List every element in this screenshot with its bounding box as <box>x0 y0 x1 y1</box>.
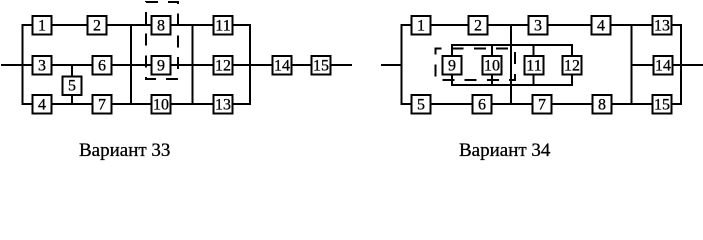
wire stub 11 bottom <box>533 74 535 86</box>
svg-text:1: 1 <box>417 18 425 35</box>
svg-text:14: 14 <box>655 58 671 75</box>
resistor box 10 <box>483 56 502 75</box>
resistor box 3 <box>529 16 548 35</box>
wire stub 10 top <box>491 44 493 56</box>
svg-text:13: 13 <box>654 18 670 35</box>
wire 15 to bus6 <box>672 103 681 105</box>
wire bus left vertical <box>401 24 403 105</box>
wire stub to 5 top <box>71 65 73 76</box>
resistor box 7 <box>533 95 552 114</box>
wire bus to R5 <box>402 103 412 105</box>
wire 6 to 7 <box>492 103 532 105</box>
svg-text:10: 10 <box>484 58 500 75</box>
wire 2 to 3 <box>488 24 528 26</box>
wire stub 10 bottom <box>491 74 493 86</box>
wire 3 to 4 <box>548 24 591 26</box>
svg-text:11: 11 <box>215 18 230 35</box>
svg-text:Вариант 34: Вариант 34 <box>459 140 551 161</box>
resistor box 13 <box>653 16 672 35</box>
wire bus3 vertical <box>192 24 194 105</box>
resistor box 8 <box>152 16 171 35</box>
resistor box 2 <box>88 16 107 35</box>
resistor box 8 <box>593 95 612 114</box>
svg-text:12: 12 <box>564 58 580 75</box>
wire 9 to 12 <box>171 64 213 66</box>
svg-text:15: 15 <box>313 58 329 75</box>
wire 14 to 15 <box>292 64 311 66</box>
wire exit right diagram <box>681 64 703 66</box>
svg-text:8: 8 <box>157 18 165 35</box>
resistor box 12 <box>563 56 582 75</box>
wire 8 to 11 <box>171 24 213 26</box>
wire rail bottom <box>452 84 572 86</box>
svg-text:5: 5 <box>68 78 76 95</box>
svg-text:7: 7 <box>538 97 546 114</box>
wire bus1 to R4 bottom <box>23 103 33 105</box>
wire top bus1 to R1 <box>23 24 33 26</box>
resistor box 5 <box>412 95 431 114</box>
wire 2 to 8 <box>107 24 151 26</box>
dashed group rect 8-9 <box>146 2 178 79</box>
resistor box 1 <box>33 16 52 35</box>
resistor box 11 <box>525 56 544 75</box>
wire 8 to 15 <box>612 103 652 105</box>
wire bus6 vertical <box>680 24 682 105</box>
wire bus to R1 <box>402 24 412 26</box>
svg-text:10: 10 <box>153 97 169 114</box>
svg-text:6: 6 <box>478 97 486 114</box>
svg-text:7: 7 <box>98 97 106 114</box>
wire 10 to 13 <box>171 103 213 105</box>
svg-text:9: 9 <box>448 58 456 75</box>
wire bus5 vertical <box>631 24 633 105</box>
resistor box 11 <box>214 16 233 35</box>
svg-text:4: 4 <box>38 97 46 114</box>
svg-text:4: 4 <box>597 18 605 35</box>
svg-text:2: 2 <box>93 18 101 35</box>
resistor box 13 <box>214 95 233 114</box>
wire 12 to 14 <box>233 64 272 66</box>
wire stub 9 top <box>451 44 453 56</box>
resistor box 2 <box>469 16 488 35</box>
wire bus2 vertical <box>130 24 132 105</box>
wire stub 11 top <box>533 44 535 56</box>
resistor box 14 <box>273 56 292 75</box>
wire bus5 to 14 <box>632 64 654 66</box>
svg-text:11: 11 <box>526 58 541 75</box>
wire stub 9 bottom <box>451 74 453 86</box>
dashed group rect 9-10 <box>436 49 516 81</box>
wire entry right diagram <box>381 64 402 66</box>
svg-text:3: 3 <box>534 18 542 35</box>
svg-text:12: 12 <box>215 58 231 75</box>
wire 6 to 9 <box>112 64 151 66</box>
resistor box 14 <box>654 56 673 75</box>
wire entry left <box>1 64 32 66</box>
resistor box 7 <box>93 95 112 114</box>
svg-text:13: 13 <box>215 97 231 114</box>
resistor box 15 <box>653 95 672 114</box>
wire 13 to bus6 <box>672 24 681 26</box>
resistor box 4 <box>592 16 611 35</box>
resistor box 10 <box>152 95 171 114</box>
wire 5 to 6 <box>431 103 472 105</box>
wire bus1 left vertical <box>22 24 24 105</box>
svg-text:15: 15 <box>654 97 670 114</box>
resistor box 9 <box>152 56 171 75</box>
svg-text:9: 9 <box>157 58 165 75</box>
wire 4 to 7 <box>52 103 92 105</box>
wire stub 12 bottom <box>571 74 573 86</box>
svg-text:1: 1 <box>38 18 46 35</box>
wire 4 to 13 <box>611 24 652 26</box>
wire 11 to bus4 <box>233 24 250 26</box>
resistor box 6 <box>473 95 492 114</box>
resistor box 12 <box>214 56 233 75</box>
wire stub 5 bottom <box>71 95 73 104</box>
svg-text:6: 6 <box>98 58 106 75</box>
wire rail top <box>452 44 572 46</box>
wire 1 to 2 <box>431 24 468 26</box>
wire exit left diagram <box>331 64 352 66</box>
wire 1 to 2 <box>52 24 87 26</box>
wire bus4 vertical <box>249 24 251 105</box>
wire 3 to 6 <box>52 64 92 66</box>
wire 13 to bus4 <box>233 103 250 105</box>
resistor box 6 <box>93 56 112 75</box>
svg-text:14: 14 <box>274 58 290 75</box>
svg-text:Вариант 33: Вариант 33 <box>79 140 170 161</box>
wire 14 to bus6 <box>672 64 681 66</box>
wire stub 12 top <box>571 44 573 56</box>
resistor box 15 <box>312 56 331 75</box>
wire 7 to 8 <box>552 103 592 105</box>
wire 7 to 10 <box>112 103 151 105</box>
wire center vertical <box>510 24 512 105</box>
resistor box 5 <box>63 77 82 96</box>
resistor box 3 <box>33 56 52 75</box>
resistor box 4 <box>33 95 52 114</box>
svg-text:2: 2 <box>474 18 482 35</box>
svg-text:8: 8 <box>598 97 606 114</box>
resistor box 1 <box>412 16 431 35</box>
svg-text:3: 3 <box>38 58 46 75</box>
svg-text:5: 5 <box>417 97 425 114</box>
resistor box 9 <box>443 56 462 75</box>
